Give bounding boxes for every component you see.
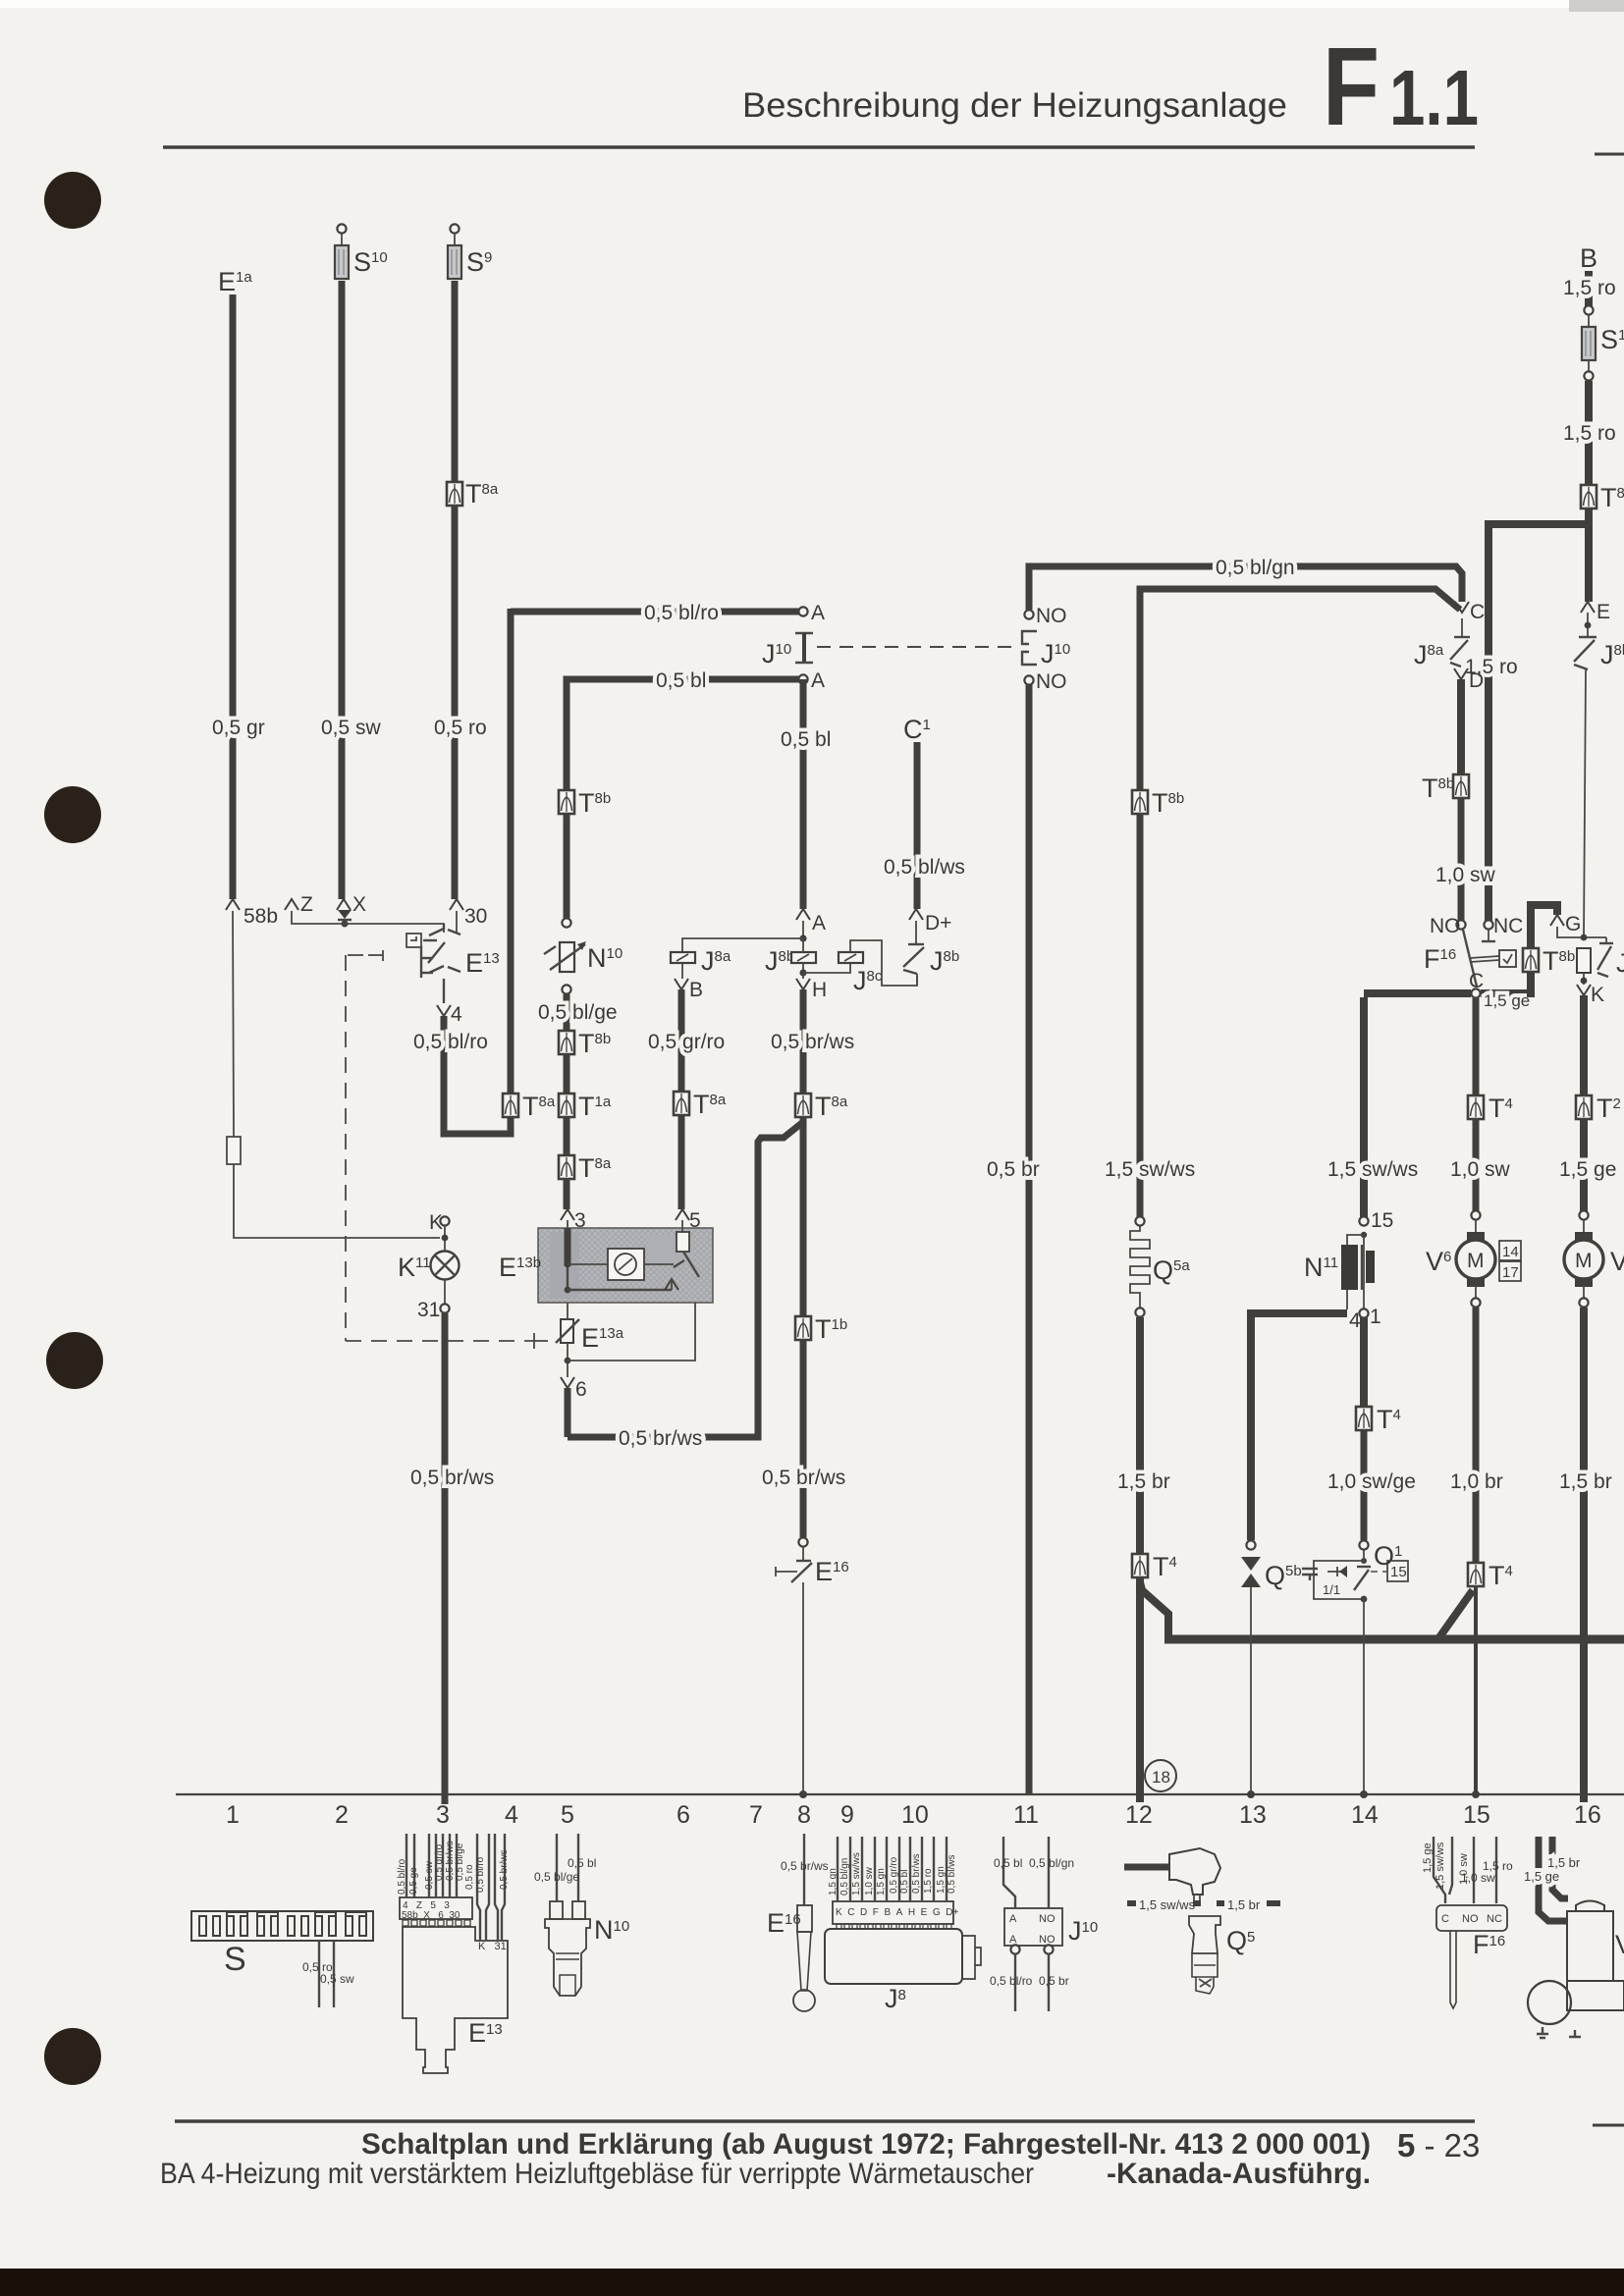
- svg-text:2: 2: [335, 1801, 349, 1829]
- S wires: [318, 1941, 320, 2007]
- resistor N11: [1361, 1232, 1367, 1238]
- wire G hook riser: [1531, 905, 1557, 997]
- wire below T8b with branch: [1585, 508, 1593, 602]
- svg-text:1,5 ge: 1,5 ge: [1559, 1158, 1616, 1181]
- svg-text:1,5 br: 1,5 br: [1547, 1855, 1581, 1870]
- header rule right stub: [1595, 153, 1624, 156]
- inline connector on 58b wire: [227, 1137, 241, 1164]
- svg-text:1,5 ge: 1,5 ge: [1422, 1842, 1434, 1873]
- terminal arrow G: [1550, 915, 1564, 926]
- svg-text:K: K: [1591, 984, 1604, 1006]
- svg-text:0,5 bl/ws: 0,5 bl/ws: [884, 856, 965, 879]
- earth bus: [1164, 1635, 1624, 1644]
- relay coil J8c: [803, 963, 850, 973]
- motor V6: [1456, 1232, 1495, 1287]
- terminal arrow D: [1454, 668, 1468, 679]
- svg-text:NO: NO: [1039, 1913, 1056, 1925]
- switch unit E13 pictogram: [397, 1834, 510, 2073]
- dashed control linkage: [346, 955, 534, 1341]
- svg-text:1,5 sw/ws: 1,5 sw/ws: [1139, 1897, 1196, 1912]
- svg-text:1,0 sw: 1,0 sw: [1461, 1871, 1495, 1885]
- svg-text:C: C: [1441, 1913, 1449, 1925]
- svg-text:1: 1: [226, 1801, 240, 1829]
- terminal 15: [1359, 1216, 1368, 1225]
- svg-text:5: 5: [561, 1801, 574, 1829]
- svg-text:0,5 bl: 0,5 bl: [994, 1856, 1022, 1870]
- wire S9 0,5 ro upper: [452, 281, 459, 482]
- connector T1a: [559, 1094, 574, 1117]
- svg-text:14: 14: [1351, 1801, 1379, 1829]
- connector T8b on G riser: [1523, 948, 1539, 972]
- svg-text:A: A: [811, 669, 825, 692]
- fuse box S: [191, 1911, 373, 2007]
- wire 1,5 br col12: [1136, 1317, 1144, 1554]
- terminal arrow X: [337, 899, 351, 910]
- E13b resistor pin5: [681, 1228, 683, 1232]
- wire 0,5 bl/ro horizontal: [511, 609, 799, 615]
- wire 1,0 sw/ge: [1361, 1430, 1368, 1540]
- bus diagonal into T4: [1439, 1590, 1473, 1637]
- terminal arrow 58b: [226, 899, 240, 910]
- node below O1: [1361, 1596, 1368, 1603]
- svg-text:0,5 bl: 0,5 bl: [899, 1870, 910, 1894]
- svg-text:0,5 bl/gn: 0,5 bl/gn: [1029, 1856, 1074, 1870]
- E13b internal wiring: [565, 1228, 571, 1266]
- svg-text:1,5 sw/ws: 1,5 sw/ws: [851, 1852, 862, 1896]
- svg-text:0,5 gr/ro: 0,5 gr/ro: [648, 1031, 725, 1053]
- wire 0,5 bl horizontal: [567, 679, 799, 682]
- F16 actuator box: [1499, 950, 1516, 967]
- svg-text:1,0 sw: 1,0 sw: [1435, 864, 1496, 886]
- svg-text:0,5 ro: 0,5 ro: [464, 1864, 475, 1890]
- wire 1,0 sw V6: [1473, 1119, 1480, 1211]
- terminal arrow Z: [285, 899, 298, 910]
- svg-text:18: 18: [1152, 1768, 1170, 1787]
- footer rule: [175, 2119, 1475, 2123]
- svg-text:3: 3: [436, 1801, 450, 1829]
- svg-text:13: 13: [1239, 1801, 1267, 1829]
- node A bus: [799, 934, 806, 941]
- punch hole 1: [44, 172, 101, 229]
- gray body E13b: [538, 1228, 713, 1303]
- svg-text:58b: 58b: [244, 905, 278, 928]
- fuse S9: [450, 224, 459, 233]
- wire S10 0,5 sw: [339, 281, 346, 899]
- svg-text:NO: NO: [1039, 1934, 1056, 1946]
- O1 contact detail: [1327, 1567, 1347, 1576]
- wire 0,5 bl/ro from E13 pin4: [444, 1016, 511, 1134]
- terminal arrow 5: [676, 1209, 689, 1220]
- wire node to J8a: [682, 938, 803, 952]
- wire T4 to bus and below: [1474, 1586, 1478, 1794]
- connector T1b: [795, 1316, 811, 1340]
- connector T2 col16: [1576, 1095, 1592, 1119]
- svg-text:NO: NO: [1036, 605, 1067, 627]
- wire col5 seg2: [564, 1117, 570, 1155]
- svg-text:G: G: [1565, 913, 1581, 935]
- svg-text:NO: NO: [1462, 1913, 1479, 1925]
- connector T4 col15 lower: [1468, 1563, 1484, 1586]
- svg-text:1,5 ro: 1,5 ro: [1563, 277, 1616, 299]
- svg-text:Schaltplan und Erklärung (ab A: Schaltplan und Erklärung (ab August 1972…: [361, 2128, 1371, 2161]
- svg-text:C: C: [1470, 601, 1485, 623]
- wire 0,5 bl col5 drop: [564, 679, 570, 790]
- wire J8c loop: [850, 940, 917, 986]
- svg-text:0,5 br/ws: 0,5 br/ws: [911, 1853, 922, 1894]
- svg-text:1.1: 1.1: [1389, 54, 1479, 141]
- svg-text:16: 16: [1574, 1801, 1601, 1829]
- svg-text:1/1: 1/1: [1323, 1582, 1340, 1597]
- connector T8a col8: [795, 1094, 811, 1117]
- svg-text:15: 15: [1463, 1801, 1490, 1829]
- svg-text:S: S: [224, 1941, 246, 1978]
- circled 18 note: [1145, 1760, 1176, 1791]
- wire E16 to track8: [802, 1582, 804, 1794]
- connector T8b col15: [1453, 774, 1469, 798]
- wire 1,0 sw to NO: [1458, 798, 1465, 921]
- svg-text:A: A: [1009, 1913, 1017, 1925]
- svg-text:Beschreibung der Heizungsanlag: Beschreibung der Heizungsanlage: [742, 86, 1287, 125]
- svg-text:0,5 br/ws: 0,5 br/ws: [410, 1467, 494, 1489]
- wire A to node: [802, 921, 804, 938]
- dashed linkage end bars: [533, 1333, 535, 1349]
- svg-text:10: 10: [901, 1801, 929, 1829]
- track numbers 1-16: [226, 1801, 1601, 1829]
- svg-text:K: K: [429, 1211, 443, 1234]
- E13b bottom line with arrow: [568, 1289, 672, 1291]
- dashed link J10 left to right: [817, 646, 1019, 648]
- svg-text:0,5 bl: 0,5 bl: [656, 669, 706, 692]
- loop from E13a node to switch: [568, 1303, 695, 1361]
- wire col8 to E16: [800, 1340, 807, 1537]
- svg-text:15: 15: [1371, 1209, 1393, 1232]
- terminal arrow 6: [561, 1377, 574, 1388]
- motor V right: [1564, 1232, 1603, 1287]
- svg-text:0,5 gr: 0,5 gr: [212, 717, 265, 739]
- wire col4 riser to 0,5 bl/ro line: [508, 609, 514, 1094]
- svg-text:1,0 br: 1,0 br: [1450, 1470, 1503, 1493]
- svg-text:NO: NO: [1430, 915, 1461, 937]
- svg-text:15: 15: [1390, 1564, 1407, 1580]
- svg-text:1,5 sw/ws: 1,5 sw/ws: [1327, 1158, 1418, 1181]
- svg-text:C: C: [1469, 970, 1484, 992]
- switch E16 pictogram: [767, 1834, 829, 2011]
- relay J right edge: [1577, 948, 1591, 973]
- terminal arrow E: [1581, 602, 1595, 613]
- svg-text:1,5 ro: 1,5 ro: [923, 1868, 934, 1894]
- wire Z/X junction line: [292, 911, 444, 933]
- svg-text:H: H: [812, 979, 827, 1001]
- switch E13 headlight switch: [421, 924, 460, 1003]
- svg-text:0,5 bl: 0,5 bl: [781, 728, 831, 751]
- svg-text:K C D F B A H E G D+: K C D F B A H E G D+: [836, 1907, 958, 1918]
- wire col8 straight to T1b: [800, 1117, 807, 1316]
- wire 0,5 gr/ro col6: [678, 989, 685, 1092]
- svg-text:0,5 bl/ro: 0,5 bl/ro: [990, 1974, 1033, 1988]
- wire 58b thin drop: [233, 911, 440, 1238]
- svg-text:1,5 gn: 1,5 gn: [936, 1866, 947, 1894]
- svg-text:5 - 23: 5 - 23: [1397, 2127, 1480, 2163]
- fuse S10: [337, 224, 346, 233]
- terminal arrow A mid: [796, 909, 810, 920]
- wire 0,5 bl/ge: [564, 994, 570, 1031]
- svg-text:6: 6: [575, 1378, 587, 1401]
- wire K to T2: [1580, 995, 1588, 1095]
- svg-text:0,5 ro: 0,5 ro: [434, 717, 487, 739]
- svg-text:1,5 ge: 1,5 ge: [1484, 991, 1530, 1010]
- svg-text:1,5 ro: 1,5 ro: [1563, 422, 1616, 445]
- svg-text:11: 11: [1013, 1801, 1039, 1829]
- wire 0,5 br/ws col3: [442, 1313, 449, 1804]
- svg-text:1,5 ge: 1,5 ge: [1524, 1869, 1559, 1884]
- svg-text:NO: NO: [1036, 670, 1067, 693]
- thermo switch F16 pictogram: [1422, 1837, 1513, 2008]
- wire N11 feed from 1,5 ge line: [1360, 997, 1368, 1217]
- wire 1,5 ro to T8b: [1585, 381, 1593, 485]
- J8 wires: [838, 1837, 947, 1901]
- branch to NC riser: [1489, 524, 1589, 921]
- svg-text:0,5 br: 0,5 br: [987, 1158, 1040, 1181]
- connector T4 col14: [1356, 1407, 1372, 1430]
- svg-text:0,5 bl/ge: 0,5 bl/ge: [534, 1870, 579, 1884]
- svg-text:0,5 bl/ro: 0,5 bl/ro: [644, 602, 719, 624]
- E13a to pin6: [567, 1343, 568, 1377]
- wire O1 to track14: [1363, 1599, 1365, 1794]
- fuse S16: [1582, 327, 1596, 360]
- svg-text:1,5 br: 1,5 br: [1117, 1470, 1170, 1493]
- svg-text:0,5 gr/ro: 0,5 gr/ro: [889, 1856, 899, 1894]
- relay J10 pictogram: [990, 1837, 1098, 2011]
- wire E switch drop: [1584, 669, 1586, 936]
- svg-text:1,5 sw/ws: 1,5 sw/ws: [1435, 1842, 1446, 1890]
- svg-text:0,5 bl/gn: 0,5 bl/gn: [1216, 557, 1295, 579]
- terminal A lower: [798, 674, 807, 683]
- connector T4 col12: [1132, 1554, 1148, 1577]
- terminal arrow 4: [437, 1005, 451, 1016]
- thermo switch F16: [1456, 920, 1465, 929]
- wire col6 to pin5: [678, 1115, 685, 1209]
- blower V pictogram: [1524, 1837, 1624, 2038]
- wire Q5b to track13: [1250, 1587, 1252, 1794]
- connector T4 col15: [1468, 1095, 1484, 1119]
- svg-text:F: F: [1323, 25, 1380, 148]
- relay coil J8a: [671, 952, 695, 963]
- svg-text:X: X: [352, 893, 366, 916]
- svg-text:7: 7: [749, 1801, 763, 1829]
- svg-text:6: 6: [677, 1801, 690, 1829]
- switch J8a right: [1461, 618, 1463, 636]
- lamp K11 feed line: [440, 1216, 449, 1225]
- E13 wires bundle: [406, 1834, 505, 1941]
- footer rule right stub: [1593, 2124, 1624, 2127]
- wire 1,5 ge V right: [1580, 1119, 1588, 1211]
- header rule: [163, 145, 1475, 149]
- wire 1,0 br V6 down: [1473, 1308, 1480, 1563]
- svg-text:NC: NC: [1493, 915, 1523, 937]
- terminal arrow H: [796, 979, 810, 989]
- connector T8a col5c: [559, 1155, 574, 1179]
- wire S9 0,5 ro lower: [452, 506, 459, 899]
- svg-text:0,5 br/ws: 0,5 br/ws: [781, 1859, 829, 1873]
- svg-text:1: 1: [1370, 1306, 1381, 1328]
- wire pin1 down: [1360, 1317, 1368, 1407]
- svg-text:V: V: [1610, 1247, 1624, 1276]
- svg-text:30: 30: [464, 905, 487, 928]
- wire 1,5 br V down: [1580, 1308, 1588, 1802]
- svg-text:K 31: K 31: [478, 1941, 507, 1952]
- svg-text:0,5 bl/ge: 0,5 bl/ge: [538, 1001, 618, 1024]
- wire 0,5 br col11: [1026, 684, 1033, 1794]
- terminal arrow D+: [909, 909, 923, 920]
- svg-text:A: A: [811, 602, 825, 624]
- wire 1,5 ge horizontal: [1364, 989, 1531, 997]
- svg-text:0,5 br/ws: 0,5 br/ws: [762, 1467, 845, 1489]
- svg-text:0,5 gr/ro: 0,5 gr/ro: [434, 1843, 445, 1881]
- svg-text:0,5 bl/ro: 0,5 bl/ro: [413, 1031, 488, 1053]
- svg-text:Z: Z: [300, 893, 313, 916]
- svg-text:12: 12: [1125, 1801, 1153, 1829]
- relay J10 left coil: [795, 632, 813, 634]
- connector T8a col6: [674, 1092, 689, 1115]
- relay J10 right: [1024, 610, 1033, 618]
- svg-text:1,0 sw: 1,0 sw: [1450, 1158, 1511, 1181]
- svg-text:1,0 sw: 1,0 sw: [864, 1866, 875, 1896]
- svg-text:8: 8: [797, 1801, 811, 1829]
- svg-text:0,5 bl: 0,5 bl: [568, 1856, 596, 1870]
- svg-text:1,5 gn: 1,5 gn: [828, 1868, 839, 1896]
- relay plate J8 pictogram: [825, 1837, 981, 2013]
- switch J8b far right: [1579, 636, 1597, 638]
- F16 NC stub: [1488, 930, 1489, 940]
- connector T8b col5b: [559, 1031, 574, 1054]
- wire 30 thin drop: [456, 911, 458, 933]
- wire diagonal to bus: [1140, 1582, 1168, 1635]
- punch hole 4: [44, 2028, 101, 2085]
- bottom dark strip: [0, 2269, 1624, 2296]
- svg-text:B: B: [1580, 243, 1597, 273]
- node below J8b: [802, 963, 804, 979]
- F16 blade: [1463, 930, 1477, 987]
- diode at X: [338, 910, 352, 919]
- E13b gauge: [608, 1249, 644, 1280]
- wire C to T4: [1473, 998, 1480, 1095]
- connector T8b col5: [559, 790, 574, 814]
- wire col12 to track: [1136, 1577, 1144, 1802]
- svg-text:0,5 br: 0,5 br: [1039, 1974, 1069, 1988]
- terminal arrow 3: [561, 1209, 574, 1220]
- svg-text:-Kanada-Ausführg.: -Kanada-Ausführg.: [1107, 2158, 1371, 2190]
- current track baseline: [176, 1793, 1624, 1795]
- wire J8a to B: [681, 963, 683, 979]
- resistor N10: [560, 942, 574, 972]
- E13 wire labels: [397, 1841, 510, 1895]
- connector T8a on S9 wire: [447, 482, 462, 506]
- wire D to T8b: [1457, 679, 1465, 774]
- svg-text:A: A: [812, 912, 826, 934]
- svg-text:0,5 bl/ro: 0,5 bl/ro: [475, 1856, 486, 1893]
- valve Q5 pictogram: [1124, 1848, 1280, 1994]
- G thin link to relay: [1557, 927, 1606, 937]
- svg-text:J: J: [1616, 948, 1624, 978]
- svg-text:17: 17: [1502, 1264, 1519, 1281]
- punch hole 3: [46, 1332, 103, 1389]
- connector T8b col12: [1132, 790, 1148, 814]
- wire pin4 to Q5b: [1251, 1313, 1347, 1540]
- wire col12 down: [1137, 814, 1144, 1217]
- svg-text:1,5 br: 1,5 br: [1227, 1897, 1261, 1912]
- node under diode: [342, 921, 349, 928]
- svg-text:B: B: [689, 979, 703, 1001]
- terminal arrow 30: [450, 899, 463, 910]
- terminal A upper: [798, 607, 807, 615]
- wire 0,5 br/ws col8: [800, 989, 807, 1094]
- wire col5 to N10: [564, 814, 570, 918]
- svg-text:BA 4-Heizung mit verstärktem H: BA 4-Heizung mit verstärktem Heizluftgeb…: [160, 2158, 1034, 2190]
- svg-text:0,5 sw: 0,5 sw: [321, 717, 382, 739]
- wire col8 branch diagonal to 772 riser: [568, 1117, 803, 1437]
- switch E13a: [561, 1319, 573, 1343]
- svg-text:31: 31: [417, 1299, 440, 1321]
- sender Q5b: [1241, 1557, 1261, 1571]
- svg-text:V: V: [1615, 1930, 1624, 1959]
- lamp K11: [431, 1252, 460, 1280]
- svg-text:A: A: [1009, 1934, 1017, 1946]
- wire col5 seg3: [564, 1179, 570, 1209]
- svg-text:0,5 sw: 0,5 sw: [320, 1972, 354, 1986]
- E13 detent square: [406, 934, 421, 947]
- switch E16: [802, 1547, 804, 1561]
- connector T8a col4: [503, 1094, 518, 1117]
- svg-text:0,5 br/ws: 0,5 br/ws: [499, 1849, 510, 1890]
- svg-text:NC: NC: [1487, 1913, 1502, 1925]
- switch J8b right of C1: [915, 921, 917, 943]
- svg-text:14: 14: [1502, 1244, 1519, 1260]
- svg-text:D: D: [1469, 669, 1484, 692]
- svg-text:1,5 sw/ws: 1,5 sw/ws: [1105, 1158, 1195, 1181]
- svg-text:1,5 br: 1,5 br: [1559, 1470, 1612, 1493]
- wire second line to C: [1140, 589, 1460, 610]
- O1 capacitor: [1302, 1569, 1318, 1580]
- svg-text:0,5 bl/ws: 0,5 bl/ws: [947, 1855, 957, 1894]
- wire col12 riser: [1137, 589, 1144, 790]
- terminal arrow K: [1577, 985, 1591, 995]
- svg-text:0,5 br/ws: 0,5 br/ws: [771, 1031, 854, 1053]
- svg-text:4: 4: [505, 1801, 518, 1829]
- punch hole 2: [44, 786, 101, 843]
- svg-text:9: 9: [840, 1801, 854, 1829]
- node E: [1587, 613, 1589, 637]
- svg-text:0,5 br/ws: 0,5 br/ws: [619, 1427, 702, 1450]
- svg-text:0,5 ge: 0,5 ge: [408, 1867, 419, 1895]
- E13b switch blade: [683, 1252, 699, 1277]
- wire 0,5 bl col8 vertical: [800, 679, 807, 909]
- wire 0,5 br/ws pin6: [565, 1388, 571, 1437]
- O1 dashed to 15 box: [1371, 1571, 1386, 1573]
- terminal C junction: [1471, 988, 1480, 997]
- temperature sender N10 pictogram: [534, 1834, 629, 1996]
- resistor Q5a: [1130, 1226, 1150, 1308]
- terminal arrow C: [1455, 602, 1469, 613]
- terminal arrow B: [675, 979, 688, 989]
- connector T8b col16: [1581, 485, 1597, 508]
- svg-text:E: E: [1597, 601, 1610, 623]
- svg-text:D+: D+: [925, 912, 951, 934]
- svg-text:4: 4: [451, 1003, 462, 1026]
- terminal 31: [444, 1279, 446, 1305]
- wire col5 seg: [564, 1054, 570, 1094]
- terminal boxes 14 17: [1499, 1241, 1521, 1260]
- wire 0,5 bl/gn: [1029, 566, 1462, 610]
